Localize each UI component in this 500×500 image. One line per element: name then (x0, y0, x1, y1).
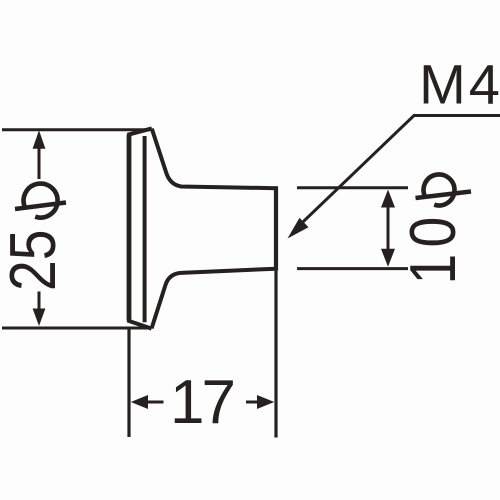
arrow M4 leader (288, 218, 309, 239)
ext line 25phi top (2, 128, 151, 131)
ext line 10phi bottom (297, 267, 408, 270)
arrow 25phi up (33, 130, 46, 149)
svg-text:17: 17 (170, 368, 233, 437)
knob right face (274, 186, 278, 270)
arrow 17 left (131, 395, 148, 409)
phi glyph of 25phi: slash (15, 203, 66, 210)
svg-text:M4: M4 (419, 53, 500, 116)
svg-text:10: 10 (396, 210, 469, 284)
phi glyph of 25phi: loop (15, 184, 66, 218)
arrow 25phi down (33, 309, 46, 327)
leader line M4 (294, 116, 500, 231)
ext line 25phi bottom (2, 327, 149, 330)
phi glyph of 10phi: loop (416, 174, 472, 205)
arrow 17 right (257, 395, 274, 409)
knob bottom profile (152, 269, 276, 329)
dim line 17 left tail (146, 401, 164, 404)
knob bottom chamfer (127, 320, 151, 328)
ext line 17 left (127, 327, 130, 437)
dim line 25phi lower (38, 292, 41, 311)
arrow 10phi down (381, 249, 395, 267)
ext line 10phi top (297, 186, 408, 189)
knob inner rim line (143, 136, 147, 322)
dim line 25phi upper (38, 140, 41, 179)
knob top chamfer (127, 128, 152, 135)
arrow 10phi up (381, 190, 395, 208)
phi glyph of 10phi: slash (416, 192, 472, 199)
knob top profile (152, 129, 276, 189)
knob left face (127, 135, 132, 321)
ext line 17 right (274, 271, 277, 438)
dim line 17 right tail (246, 401, 259, 404)
dim line 10phi (387, 200, 390, 256)
svg-text:25: 25 (0, 230, 69, 291)
